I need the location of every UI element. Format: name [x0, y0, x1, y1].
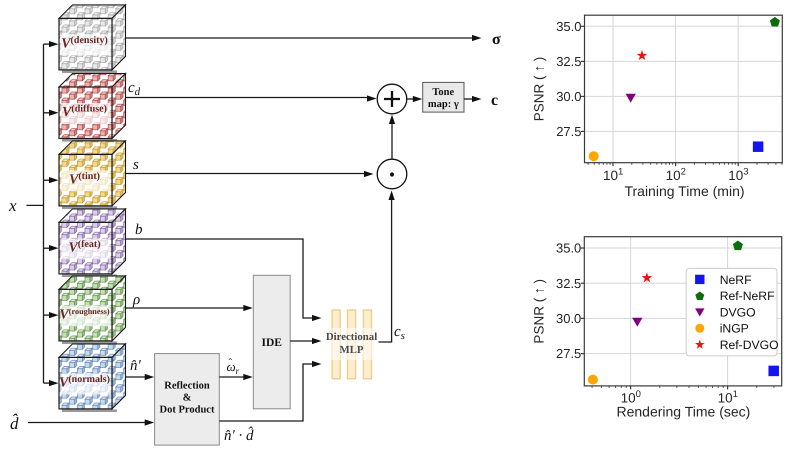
chart: PSNR vs Training Time — [532, 15, 783, 199]
svg-text:σ: σ — [492, 31, 501, 48]
block tone map gamma — [423, 82, 464, 112]
svg-text:NeRF: NeRF — [720, 273, 752, 287]
svg-text:PSNR ( ↑ ): PSNR ( ↑ ) — [532, 279, 547, 344]
marker iNGP (orange circle, plot 1) — [589, 151, 599, 161]
block IDE (integrated directional encoding) — [253, 275, 290, 409]
wire multiplier to adder — [389, 115, 395, 160]
label sigma output — [492, 31, 501, 48]
block Reflection & Dot Product — [155, 354, 220, 446]
label rho — [132, 292, 140, 308]
multiplier node (dot product circle) — [377, 159, 407, 189]
svg-text:35.0: 35.0 — [556, 19, 581, 34]
label d-hat (view direction) — [10, 414, 19, 433]
svg-text:iNGP: iNGP — [720, 322, 749, 336]
wire n-hat-prime dot d-hat: to directional MLP bottom input — [219, 361, 321, 421]
branch wire into V(density) — [44, 41, 59, 47]
wire c_d: diffuse output into adder — [126, 95, 377, 101]
svg-text:32.5: 32.5 — [556, 276, 581, 291]
label c_s — [394, 324, 405, 342]
branch wire into V(feat) — [44, 245, 59, 251]
label n-hat-prime — [130, 358, 142, 374]
wire tone map to c output — [464, 96, 482, 102]
marker DVGO (purple triangle, plot 2) — [632, 318, 642, 327]
wire c_s: directional MLP output up into multiplier — [379, 191, 395, 343]
svg-text:IDE: IDE — [261, 337, 282, 349]
svg-text:Ref-DVGO: Ref-DVGO — [720, 338, 779, 352]
label omega-hat-r — [227, 357, 240, 377]
wire IDE output into directional MLP middle input — [290, 338, 321, 344]
svg-text:PSNR ( ↑ ): PSNR ( ↑ ) — [532, 57, 547, 122]
svg-text:Dot Product: Dot Product — [160, 405, 215, 416]
svg-text:30.0: 30.0 — [556, 89, 581, 104]
svg-text:Directional: Directional — [326, 331, 377, 343]
svg-text:30.0: 30.0 — [556, 311, 581, 326]
voxel grid V(feat) (purple) — [59, 209, 126, 277]
label s — [133, 157, 139, 173]
svg-text:r: r — [236, 367, 240, 377]
label b — [135, 222, 143, 238]
svg-text:Ref-NeRF: Ref-NeRF — [720, 289, 775, 303]
svg-text:ˆ: ˆ — [229, 357, 233, 369]
wire n-hat-prime: normals output into Reflection box — [126, 374, 155, 380]
branch wire into V(tint) — [44, 177, 59, 183]
label c output — [491, 92, 498, 109]
svg-text:n̂′: n̂′ — [130, 358, 142, 374]
trunk wire (x fan-out) — [43, 44, 45, 383]
branch wire into V(roughness) — [44, 312, 59, 318]
chart: PSNR vs Rendering Time — [532, 237, 782, 420]
svg-text:Reflection: Reflection — [164, 381, 210, 392]
svg-text:s: s — [133, 157, 139, 173]
node x (input position) — [8, 196, 17, 215]
marker NeRF (blue square, plot 2) — [768, 366, 779, 377]
wire omega-hat-r: reflection dir into IDE — [219, 374, 253, 380]
marker Ref-NeRF (green pentagon, plot 1) — [770, 17, 780, 27]
svg-text:ρ: ρ — [132, 292, 140, 308]
svg-text:x: x — [8, 196, 17, 215]
marker Ref-NeRF (green pentagon, plot 2) — [733, 241, 743, 251]
label c_d — [128, 80, 141, 98]
voxel grid V(diffuse) (red) — [59, 74, 126, 142]
voxel grid V(normals) (blue) — [59, 344, 126, 412]
marker iNGP (orange circle, plot 2) — [588, 375, 598, 385]
legend (plot 2) — [686, 268, 778, 356]
marker NeRF (blue square, plot 1) — [753, 141, 764, 152]
svg-text:27.5: 27.5 — [556, 124, 581, 139]
branch wire into V(normals) — [44, 380, 59, 386]
svg-text:Training Time (min): Training Time (min) — [624, 183, 744, 199]
wire s: tint output into multiplier — [126, 171, 374, 177]
svg-text:n̂′ · d̂: n̂′ · d̂ — [224, 426, 254, 444]
voxel grid V(density) (gray) — [59, 5, 126, 73]
block Directional MLP (three layer bars) — [326, 310, 377, 379]
voxel grid V(roughness) (green) — [59, 276, 126, 344]
svg-text:b: b — [135, 222, 143, 238]
svg-text:&: & — [183, 393, 192, 404]
svg-text:MLP: MLP — [340, 344, 364, 356]
svg-text:d̂: d̂ — [10, 414, 19, 433]
marker Ref-DVGO (red star, plot 1) — [637, 50, 648, 60]
branch wire into V(diffuse) — [44, 110, 59, 116]
wire adder to tone map — [407, 96, 423, 102]
wire b: feat output to directional MLP top input — [126, 239, 322, 321]
svg-text:DVGO: DVGO — [720, 305, 756, 319]
wire from x to trunk — [27, 204, 44, 206]
marker Ref-DVGO (red star, plot 2) — [642, 272, 653, 282]
label n-hat-prime dot d-hat — [224, 426, 254, 444]
wire sigma: density output — [126, 35, 482, 41]
adder node (plus circle) — [377, 84, 407, 114]
wire rho: roughness output into IDE — [126, 305, 253, 311]
svg-text:27.5: 27.5 — [556, 346, 581, 361]
svg-text:c: c — [491, 92, 498, 109]
svg-text:map: γ: map: γ — [428, 99, 459, 110]
voxel grid V(tint) (gold) — [59, 141, 126, 209]
svg-text:35.0: 35.0 — [556, 241, 581, 256]
svg-text:Rendering Time (sec): Rendering Time (sec) — [616, 404, 750, 420]
wire d-hat into Reflection box — [28, 419, 154, 425]
svg-text:Tone: Tone — [432, 87, 454, 98]
svg-text:32.5: 32.5 — [556, 54, 581, 69]
marker DVGO (purple triangle, plot 1) — [626, 94, 636, 103]
